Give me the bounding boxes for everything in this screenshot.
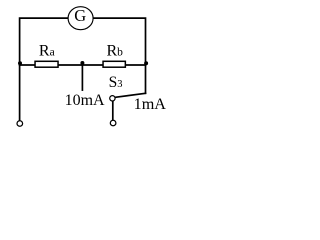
svg-text:1mA: 1mA xyxy=(134,95,167,113)
svg-text:G: G xyxy=(74,6,86,25)
svg-text:10mA: 10mA xyxy=(65,92,105,109)
